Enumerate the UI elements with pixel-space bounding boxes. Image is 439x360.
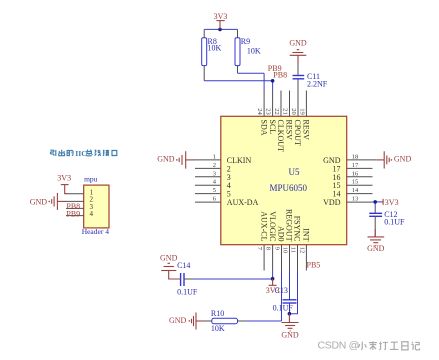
svg-text:2.2NF: 2.2NF (307, 80, 328, 89)
svg-text:1: 1 (213, 153, 216, 160)
svg-text:AUX-CL: AUX-CL (259, 211, 268, 241)
svg-text:6: 6 (213, 196, 217, 203)
svg-text:CLKOUT: CLKOUT (276, 120, 285, 153)
svg-text:10K: 10K (247, 47, 261, 56)
svg-text:R10: R10 (211, 309, 224, 318)
svg-text:7: 7 (256, 247, 263, 251)
svg-text:10K: 10K (211, 324, 225, 333)
svg-text:GND: GND (160, 253, 178, 262)
svg-text:3: 3 (213, 170, 216, 177)
svg-text:REGOUT: REGOUT (285, 209, 294, 242)
svg-text:PB5: PB5 (307, 260, 321, 269)
svg-text:GND: GND (289, 39, 307, 48)
svg-text:C13: C13 (275, 286, 288, 295)
svg-text:GND: GND (30, 198, 48, 207)
svg-text:GND: GND (281, 331, 299, 340)
svg-text:AD0: AD0 (277, 226, 286, 242)
svg-text:SDA: SDA (259, 120, 268, 136)
svg-text:C14: C14 (177, 261, 190, 270)
svg-text:19: 19 (298, 108, 305, 115)
svg-text:AUX-DA: AUX-DA (227, 198, 259, 207)
svg-text:12: 12 (298, 247, 305, 254)
svg-text:5: 5 (213, 187, 216, 194)
svg-text:14: 14 (352, 187, 359, 194)
svg-text:24: 24 (256, 108, 263, 115)
svg-text:PB8: PB8 (273, 70, 287, 79)
svg-text:21: 21 (281, 108, 288, 115)
svg-text:11: 11 (289, 247, 296, 253)
svg-text:CSDN @: CSDN @ (318, 340, 360, 352)
svg-text:CPOUT: CPOUT (293, 120, 302, 146)
svg-text:0.1UF: 0.1UF (384, 218, 405, 227)
svg-text:RESV: RESV (285, 120, 294, 141)
svg-text:PB9: PB9 (66, 209, 80, 218)
svg-text:13: 13 (352, 196, 359, 203)
svg-text:3V3: 3V3 (57, 174, 71, 183)
svg-text:VLOGIC: VLOGIC (268, 211, 277, 241)
svg-text:15: 15 (352, 179, 359, 186)
svg-text:10: 10 (281, 247, 288, 254)
svg-text:GND: GND (157, 154, 175, 163)
svg-text:16: 16 (352, 170, 359, 177)
svg-text:10K: 10K (208, 44, 222, 53)
svg-text:IIC: IIC (75, 149, 87, 158)
svg-text:GND: GND (367, 244, 385, 253)
svg-text:22: 22 (273, 108, 280, 115)
svg-text:GND: GND (394, 155, 412, 164)
svg-text:mpu: mpu (84, 174, 98, 183)
svg-text:2: 2 (213, 162, 216, 169)
svg-text:3V3: 3V3 (214, 12, 228, 21)
svg-text:RESV: RESV (302, 120, 311, 141)
svg-text:U5: U5 (289, 167, 300, 177)
svg-text:17: 17 (352, 162, 359, 169)
svg-text:Header 4: Header 4 (82, 227, 110, 236)
svg-text:0.1UF: 0.1UF (273, 304, 294, 313)
svg-text:R9: R9 (241, 37, 250, 46)
svg-text:FSYNC: FSYNC (293, 216, 302, 242)
svg-text:SCL: SCL (268, 120, 277, 135)
svg-text:20: 20 (290, 108, 297, 115)
svg-text:4: 4 (213, 179, 217, 186)
svg-text:INT: INT (302, 228, 311, 241)
svg-text:18: 18 (352, 153, 359, 160)
svg-text:8: 8 (265, 247, 272, 250)
svg-text:GND: GND (169, 316, 187, 325)
svg-text:VDD: VDD (323, 198, 341, 207)
svg-text:9: 9 (273, 247, 280, 250)
svg-text:23: 23 (265, 108, 272, 115)
svg-text:4: 4 (90, 210, 94, 218)
svg-text:0.1UF: 0.1UF (177, 287, 198, 296)
svg-text:3V3: 3V3 (385, 198, 399, 207)
svg-text:MPU6050: MPU6050 (270, 183, 308, 193)
